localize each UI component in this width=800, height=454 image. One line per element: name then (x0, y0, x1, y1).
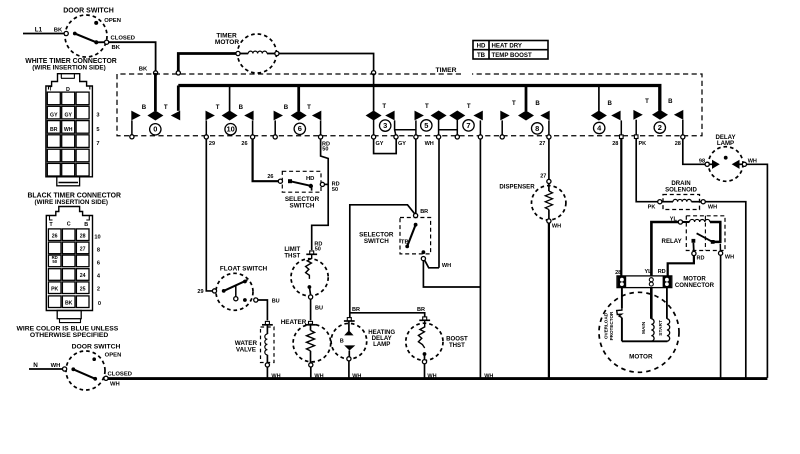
svg-text:B: B (535, 100, 540, 107)
svg-text:PK: PK (51, 287, 58, 293)
label N (33, 362, 38, 369)
wire boost branch (350, 313, 425, 317)
svg-text:50: 50 (52, 259, 57, 264)
wire RD 50 run (312, 139, 329, 250)
svg-text:WH: WH (442, 263, 451, 269)
relay caption (662, 238, 682, 245)
label WH heater (314, 373, 323, 379)
svg-text:50: 50 (332, 187, 338, 193)
svg-text:MOTOR: MOTOR (629, 354, 653, 361)
node BK on timer box top (154, 71, 158, 75)
svg-text:B: B (668, 98, 673, 105)
svg-text:MAIN: MAIN (641, 321, 647, 334)
wire heating delay lamp to neutral (348, 361, 350, 378)
label BR at boost (417, 307, 425, 313)
selector switch (HD) caption (285, 196, 320, 210)
door switch N closed dot (93, 377, 97, 381)
cam 2 left node PK (634, 135, 638, 139)
svg-text:WH: WH (314, 373, 323, 379)
svg-text:PK: PK (648, 204, 656, 210)
selector switch (TB) caption (359, 231, 394, 245)
dispenser caption (499, 183, 535, 190)
svg-text:BK: BK (112, 45, 121, 51)
svg-text:TB: TB (401, 240, 409, 246)
delay lamp left terminal (705, 162, 709, 166)
heating delay lamp caption (368, 329, 395, 348)
svg-text:WH: WH (725, 255, 734, 261)
label GY right (398, 141, 406, 147)
limit thermostat junction dot (308, 285, 312, 289)
svg-text:8: 8 (97, 248, 100, 254)
drain solenoid caption (665, 180, 697, 193)
float switch caption (220, 266, 268, 273)
wire GY jumper loop (374, 139, 397, 154)
svg-text:TIMER: TIMER (435, 67, 456, 74)
label 26 at selector (267, 174, 273, 180)
svg-text:0: 0 (98, 301, 101, 307)
limit thermostat caption (284, 246, 300, 260)
svg-text:27: 27 (539, 141, 545, 147)
wire 28 to motor connector (620, 139, 622, 276)
label GY left (376, 141, 384, 147)
wire BK to timer (109, 42, 156, 70)
timer motor label (215, 33, 240, 47)
black timer connector shell (46, 207, 92, 311)
wire 26 to selector switch (253, 139, 279, 181)
float switch pivot dot (222, 289, 226, 293)
label 29 at float switch (197, 289, 203, 295)
selector switch HD left terminal (278, 179, 282, 183)
svg-text:28: 28 (80, 234, 86, 240)
timer motor left terminal (236, 51, 240, 55)
overload protector element (617, 288, 622, 342)
svg-text:SOLENOID: SOLENOID (665, 187, 697, 194)
svg-text:CLOSED: CLOSED (108, 372, 132, 378)
svg-text:B: B (607, 100, 612, 107)
cam 2 number (654, 122, 665, 133)
wire L1 feed (23, 33, 64, 35)
cam 8 right node 27 (547, 135, 551, 139)
svg-text:0: 0 (153, 125, 157, 134)
svg-text:HD: HD (477, 43, 486, 50)
wire color note (16, 326, 118, 340)
cam 8 number (532, 123, 543, 134)
float switch dashed body (216, 273, 253, 310)
relay blade (697, 233, 713, 242)
drain solenoid coil (662, 199, 701, 201)
cam 3 right node GY (394, 135, 398, 139)
timer cam 0 contact (131, 73, 180, 135)
wire drain solenoid to neutral (705, 202, 746, 378)
door switch N closed terminal (104, 376, 108, 380)
wire bus riser to timer motor (178, 54, 236, 73)
label WH water valve (271, 373, 280, 379)
timer bus wire (178, 86, 660, 111)
svg-text:29: 29 (197, 289, 203, 295)
door switch N dashed body (66, 351, 105, 390)
white connector pin numbers (96, 113, 99, 148)
svg-text:10: 10 (226, 125, 234, 134)
svg-text:WH: WH (708, 204, 717, 210)
boost thermostat top terminal (419, 317, 430, 320)
svg-text:GY: GY (376, 141, 384, 147)
selector switch HD contact (309, 184, 313, 191)
dispenser bottom terminal (547, 219, 551, 223)
cam 2 right node 28 (681, 135, 685, 139)
svg-text:98: 98 (699, 159, 705, 165)
svg-text:GY: GY (50, 113, 58, 119)
cam 7 number (463, 120, 474, 131)
wire BR feed to TB selector (415, 139, 417, 213)
float switch blade (224, 280, 248, 291)
wire 27 to dispenser (548, 139, 550, 179)
white connector bottom tab (57, 177, 80, 186)
label RD 50 at selector (332, 182, 340, 193)
main winding (651, 288, 654, 342)
heating delay lamp bottom terminal (347, 357, 351, 361)
svg-text:TB: TB (477, 52, 486, 59)
svg-text:WH: WH (484, 373, 493, 379)
cam 7 right node (478, 135, 482, 139)
svg-text:WH: WH (352, 373, 361, 379)
svg-text:SWITCH: SWITCH (290, 203, 315, 210)
TB selector bottom terminal (421, 257, 425, 261)
timer cam 2 contact (633, 98, 683, 135)
cam 8 left node (500, 135, 504, 139)
door switch L1 pivot dot (73, 32, 77, 36)
motor connector pins (620, 278, 669, 286)
label CLOSED (top switch) (111, 36, 135, 42)
dispenser top terminal (547, 179, 551, 183)
svg-text:C: C (67, 222, 71, 228)
delay lamp element (709, 156, 742, 169)
label WH at relay (725, 255, 734, 261)
label WH boost (427, 373, 436, 379)
wire boost to neutral (424, 364, 426, 378)
svg-text:B: B (284, 104, 289, 111)
svg-text:HD: HD (306, 176, 315, 182)
wire cam5 WH down (438, 139, 440, 268)
svg-text:BK: BK (139, 67, 148, 73)
label RD 50 at limit (314, 242, 322, 253)
svg-text:2: 2 (658, 123, 662, 132)
white connector cell labels (50, 113, 73, 133)
neutral bus wire (108, 377, 768, 380)
door switch L1 closed contact dot (94, 40, 98, 44)
svg-text:28: 28 (675, 141, 681, 147)
svg-text:26: 26 (241, 141, 247, 147)
drain solenoid right terminal (701, 200, 705, 204)
svg-text:L1: L1 (35, 27, 43, 34)
label CLOSED (bottom switch) (108, 372, 132, 378)
wire delay lamp to neutral (747, 164, 768, 378)
svg-text:24: 24 (80, 273, 86, 279)
svg-text:T: T (512, 100, 516, 107)
boost thermostat element (418, 320, 424, 348)
svg-text:27: 27 (540, 174, 546, 180)
svg-text:OPEN: OPEN (105, 353, 122, 359)
svg-text:THST: THST (284, 252, 300, 259)
cam 3 left node GY (372, 135, 376, 139)
motor dashed body (599, 292, 679, 372)
heater bottom terminal (309, 363, 313, 367)
svg-text:TEMP BOOST: TEMP BOOST (492, 52, 532, 59)
svg-text:PROTECTOR: PROTECTOR (609, 311, 614, 340)
door switch L1 dashed body (65, 15, 107, 57)
motor connector body (617, 276, 672, 288)
water valve bottom terminal (265, 363, 269, 367)
door switch L1 blade (75, 34, 105, 43)
limit thermostat top terminal (306, 251, 317, 254)
label WH at neutral (cam7 wire) (484, 373, 493, 379)
wire float switch to water valve (258, 300, 268, 320)
svg-text:26: 26 (267, 174, 273, 180)
limit thermostat bottom terminal (309, 287, 313, 299)
selector switch HD pivot (288, 179, 292, 183)
selector switch HD blade (290, 181, 311, 186)
float switch left terminal (212, 289, 216, 293)
svg-text:7: 7 (96, 141, 99, 147)
door switch N pivot dot (71, 367, 75, 371)
timer dashed box (117, 74, 702, 136)
water valve caption (235, 340, 258, 354)
svg-text:GY: GY (64, 113, 72, 119)
TB selector pivot dot (414, 223, 418, 227)
label BR at TB selector (420, 209, 428, 215)
relay WH terminal (719, 244, 723, 255)
selector switch HD right terminal (320, 182, 324, 186)
svg-text:B: B (340, 339, 344, 345)
cam 5 number (421, 120, 432, 131)
motor bottom tie wire (622, 340, 668, 342)
label BU at heater (315, 306, 323, 312)
relay dashed box (686, 216, 725, 251)
drain solenoid left terminal (658, 200, 662, 204)
svg-text:3: 3 (96, 113, 99, 119)
svg-text:27: 27 (80, 247, 86, 253)
wire limit to heater (310, 299, 312, 320)
motor connector caption (675, 276, 715, 289)
selector switch (HD) dashed box (282, 171, 321, 192)
door switch N left terminal (63, 367, 67, 371)
label WH dispenser (552, 223, 561, 229)
cam 0 number (150, 124, 161, 135)
svg-text:OPEN: OPEN (104, 18, 121, 24)
TB selector top terminal (414, 214, 418, 218)
label RD at relay (697, 255, 705, 261)
wire PK to drain solenoid (636, 139, 658, 202)
wire heater to neutral (310, 367, 312, 378)
label 27 (cam 8) (539, 141, 545, 147)
svg-text:SWITCH: SWITCH (364, 238, 389, 245)
door switch N open contact (92, 353, 121, 362)
label PK at drain solenoid (648, 204, 656, 210)
svg-text:DISPENSER: DISPENSER (499, 183, 535, 190)
cam 4 number (594, 122, 605, 133)
label WH at delay lamp (748, 159, 757, 165)
svg-text:FLOAT SWITCH: FLOAT SWITCH (220, 266, 268, 273)
door switch L1 closed terminal (105, 40, 109, 44)
heater dashed body (293, 324, 331, 362)
svg-text:HEAT DRY: HEAT DRY (492, 43, 522, 50)
svg-text:50: 50 (315, 247, 321, 253)
label WH after switch (110, 382, 120, 388)
wire relay to neutral (720, 255, 722, 378)
node cam3 on timer box top (372, 71, 376, 75)
svg-text:WH: WH (552, 223, 561, 229)
boost thermostat caption (446, 336, 468, 350)
float switch blade contact dot (243, 280, 247, 284)
TB selector blade (407, 225, 415, 247)
cam 10 right node (251, 135, 255, 139)
label HD in selector (306, 176, 315, 182)
svg-text:(WIRE INSERTION SIDE): (WIRE INSERTION SIDE) (35, 199, 108, 206)
svg-text:29: 29 (209, 141, 215, 147)
timer cam 10 contact (206, 86, 254, 135)
svg-text:5: 5 (424, 121, 428, 130)
black connector bottom tab (57, 311, 81, 323)
svg-text:8: 8 (535, 124, 539, 133)
svg-text:WH: WH (51, 363, 61, 369)
svg-text:B: B (84, 222, 88, 228)
black connector cell labels (51, 234, 86, 307)
boost thermostat junction dot (423, 352, 427, 356)
label BK on L1 wire (54, 28, 63, 34)
heater top terminal (305, 321, 316, 324)
svg-text:5: 5 (96, 127, 99, 133)
wire lamp branch (350, 205, 415, 318)
svg-text:CLOSED: CLOSED (111, 36, 135, 42)
white timer connector cells (47, 92, 89, 176)
svg-text:DOOR SWITCH: DOOR SWITCH (72, 343, 121, 350)
label YL at motor connector (644, 269, 652, 275)
black timer connector title (27, 192, 120, 206)
start winding caption (658, 320, 664, 336)
relay coil input terminal (678, 220, 682, 224)
delay lamp caption (715, 134, 735, 147)
water valve coil (265, 325, 268, 363)
svg-text:MOTOR: MOTOR (215, 39, 240, 46)
drain solenoid dashed box (663, 195, 700, 210)
svg-text:B: B (239, 104, 244, 111)
svg-text:WH: WH (425, 141, 434, 147)
door switch (line L1) title (63, 8, 114, 15)
heater element (307, 325, 315, 363)
label YL at relay (670, 216, 678, 222)
svg-text:BK: BK (65, 301, 73, 307)
svg-text:28: 28 (612, 141, 618, 147)
svg-text:25: 25 (80, 287, 86, 293)
svg-text:BR: BR (417, 307, 425, 313)
label 98 at delay lamp (699, 159, 705, 165)
label RD 50 (cam 6) (322, 141, 330, 152)
svg-text:28: 28 (615, 270, 621, 276)
svg-text:START: START (658, 320, 664, 336)
heating delay lamp top terminal (344, 318, 355, 321)
float switch right contact dot (243, 298, 247, 302)
svg-text:GY: GY (398, 141, 406, 147)
timer cam 6 contact (274, 86, 322, 135)
svg-text:DOOR SWITCH: DOOR SWITCH (63, 8, 114, 15)
wire cam7-right down to neutral (479, 139, 481, 378)
water valve top terminal (262, 321, 273, 324)
label 28 (cam 2) (675, 141, 681, 147)
svg-text:RD: RD (658, 269, 666, 275)
svg-text:(WIRE INSERTION SIDE): (WIRE INSERTION SIDE) (32, 64, 105, 71)
svg-text:BU: BU (315, 306, 323, 312)
cam 10 number (225, 124, 236, 135)
wire TB selector to neutral junction (423, 261, 480, 287)
relay RD terminal (692, 243, 696, 256)
legend box (473, 41, 548, 60)
svg-text:YL: YL (644, 269, 652, 275)
TB selector bottom contact (422, 250, 426, 254)
cam 7 diamond node (455, 135, 459, 139)
wire relay RD to motor connector (668, 256, 694, 276)
label 27 at dispenser (540, 174, 546, 180)
label BR at heating delay lamp (352, 307, 360, 313)
wire cam3 to cam5 tie (395, 129, 416, 131)
overload protector caption (603, 311, 614, 340)
node on timer box top (bus riser) (176, 71, 180, 75)
svg-text:YL: YL (670, 216, 678, 222)
svg-text:OVERLOAD: OVERLOAD (603, 312, 608, 339)
heating delay lamp dashed body (331, 323, 367, 359)
delay lamp dashed body (708, 147, 743, 182)
svg-text:T: T (164, 104, 168, 111)
timer motor coil (240, 51, 275, 53)
svg-text:B: B (142, 104, 147, 111)
door switch (neutral) title (72, 343, 121, 350)
door switch L1 open contact (94, 18, 121, 25)
wire dispenser to neutral (548, 223, 550, 378)
cam 10 left node (204, 135, 208, 139)
limit thermostat element (306, 254, 312, 279)
main winding caption (641, 321, 647, 334)
svg-text:THST: THST (449, 342, 465, 349)
black timer connector cells (48, 229, 89, 308)
svg-text:3: 3 (383, 121, 387, 130)
timer cam 3 contact (366, 75, 396, 135)
svg-text:VALVE: VALVE (236, 347, 256, 354)
label 29 (209, 141, 215, 147)
label TB in selector (401, 240, 409, 246)
heating delay lamp element (340, 321, 356, 357)
label WH heating delay lamp (352, 373, 361, 379)
cam 6 left node (273, 135, 277, 139)
timer motor right terminal (275, 51, 279, 55)
svg-text:BR: BR (420, 209, 428, 215)
label 28 (cam 4) (612, 141, 618, 147)
cam 3 number (380, 120, 391, 131)
svg-text:50: 50 (322, 147, 328, 153)
label PK (cam 2) (638, 141, 646, 147)
timer cam 8 contact (500, 86, 549, 135)
wire timer motor to cam 3 stem (279, 54, 374, 71)
timer cam 4 contact (591, 86, 621, 135)
svg-text:LAMP: LAMP (373, 341, 390, 348)
label RD at motor connector (658, 269, 666, 275)
svg-text:T: T (382, 103, 386, 110)
start winding (667, 288, 670, 342)
svg-text:7: 7 (466, 121, 470, 130)
boost thermostat bottom terminal (422, 354, 426, 364)
svg-text:6: 6 (298, 124, 302, 133)
label 28 at motor connector (615, 270, 621, 276)
svg-text:HEATER: HEATER (281, 319, 307, 326)
svg-text:PK: PK (638, 141, 646, 147)
label BU at water valve (272, 299, 280, 305)
